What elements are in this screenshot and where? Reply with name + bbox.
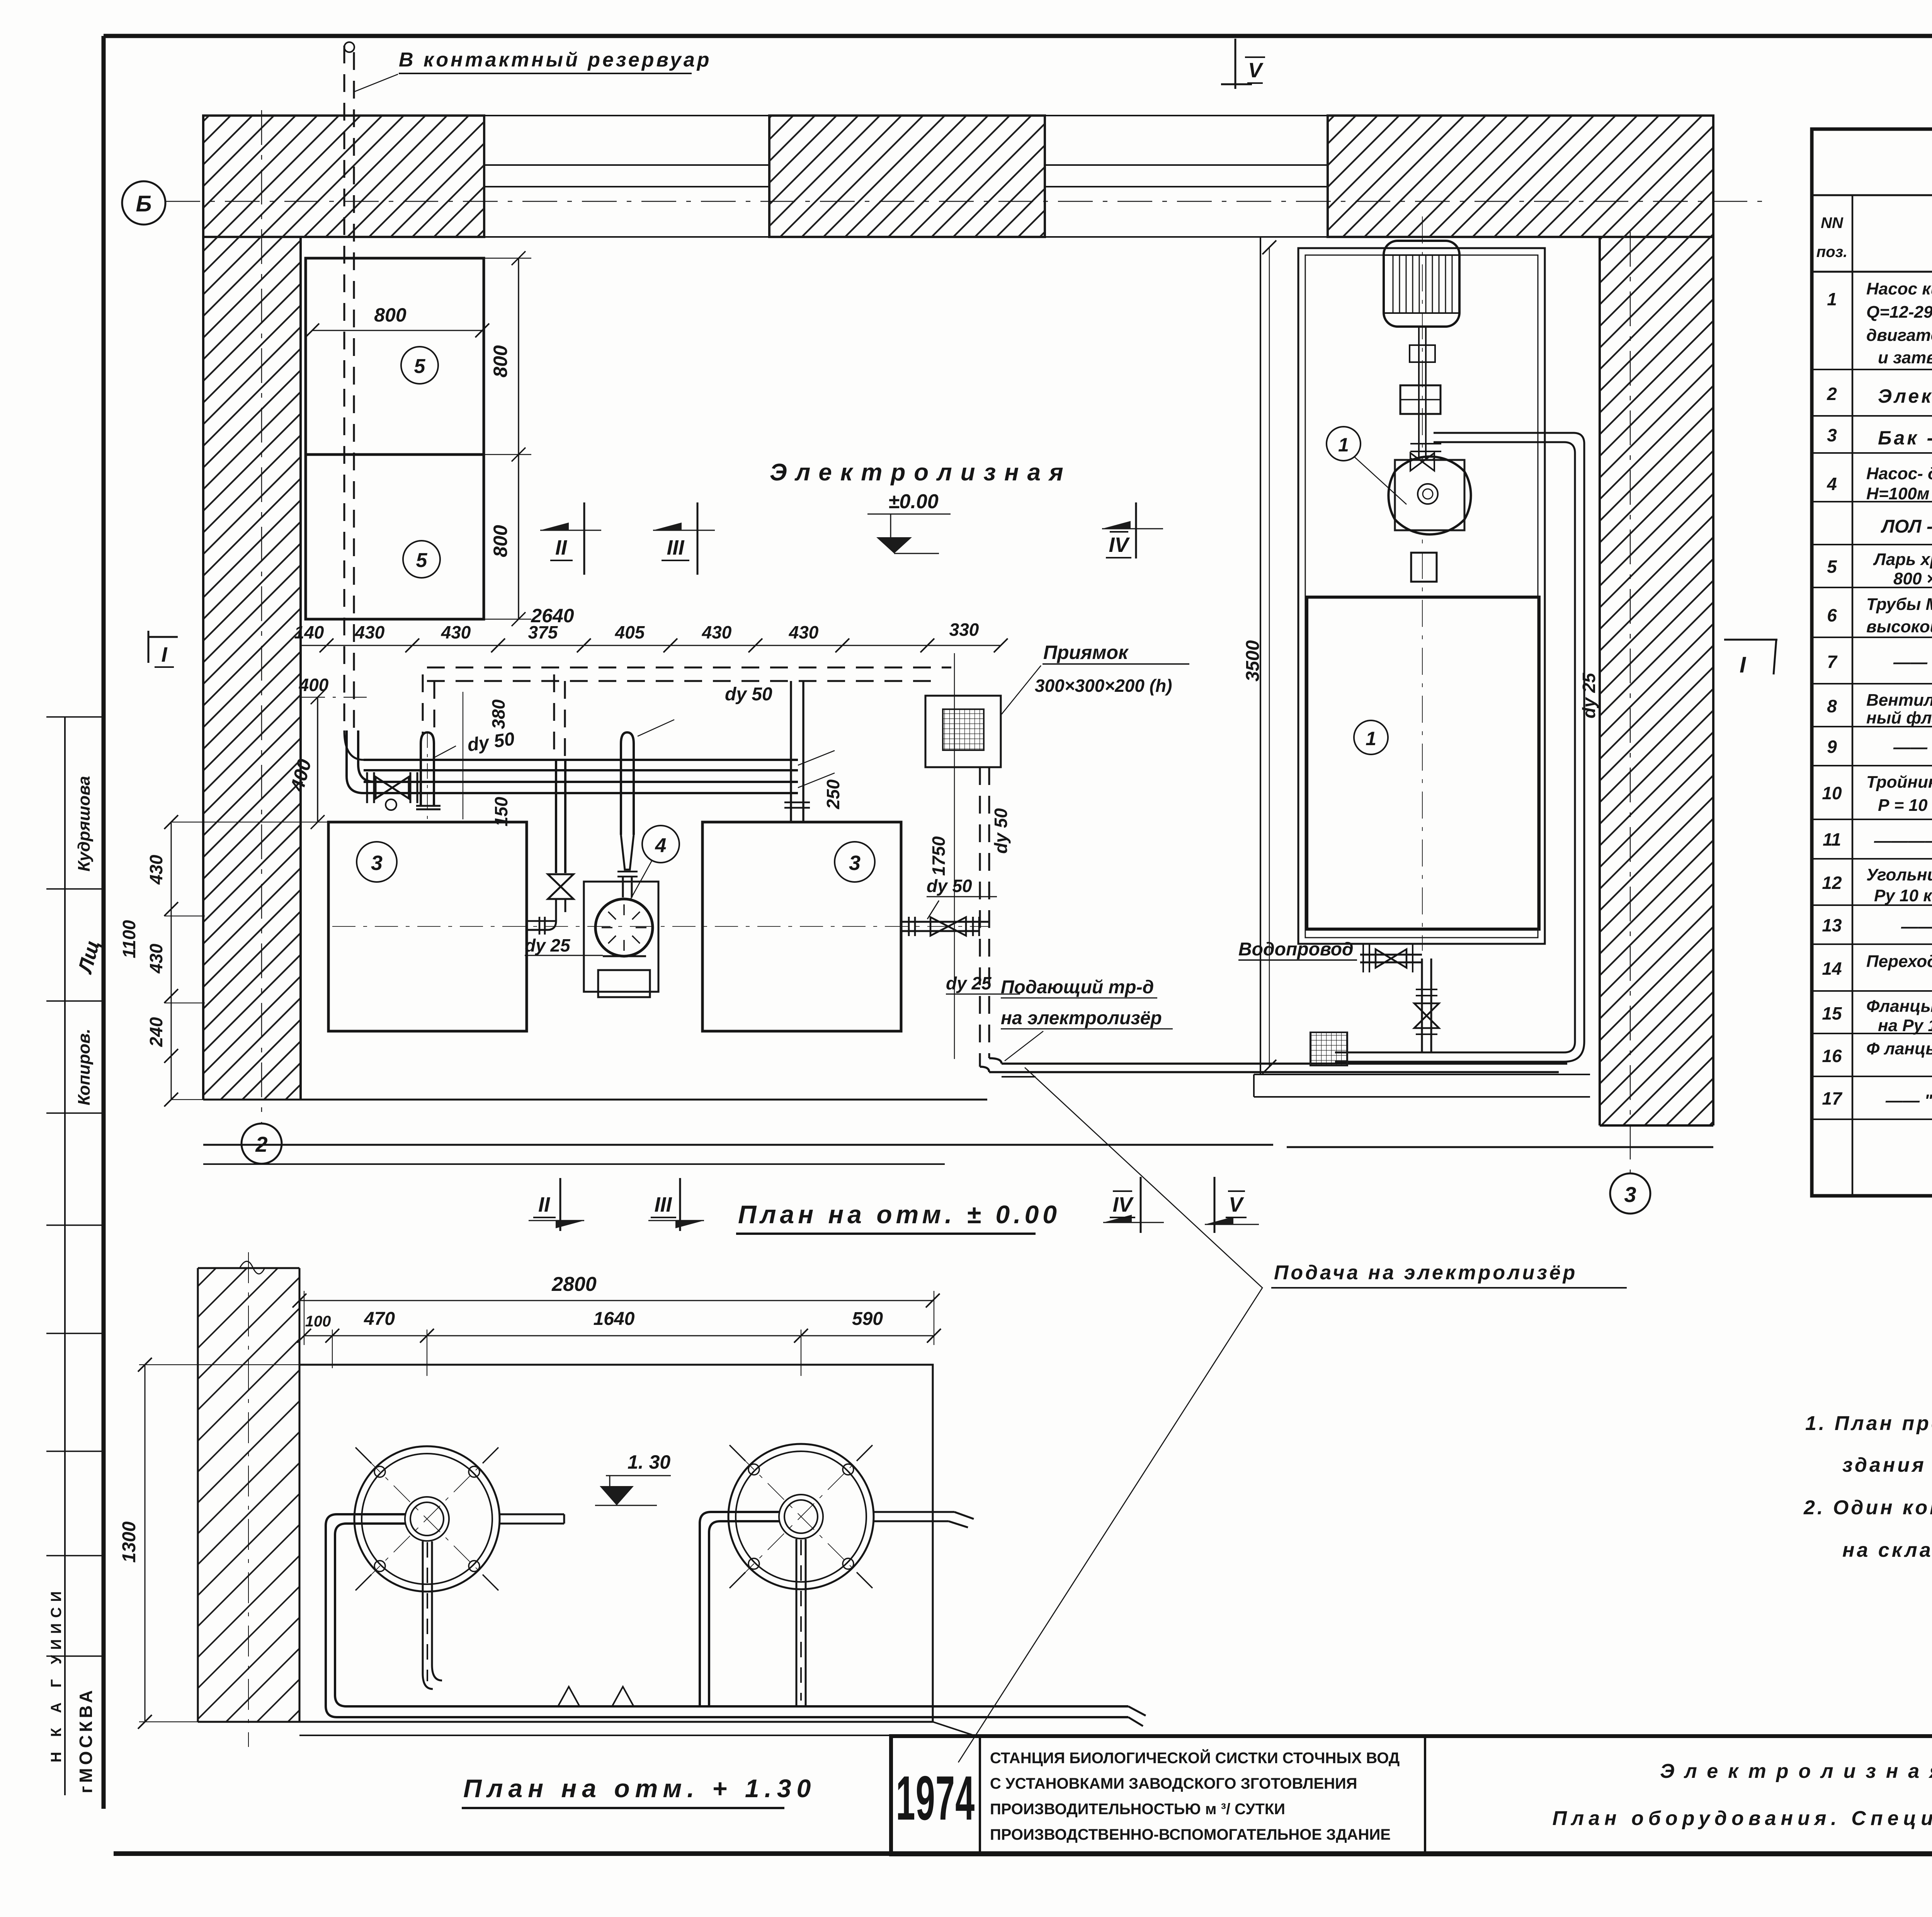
bottom wall inner line <box>203 1099 987 1101</box>
table row numbers <box>1822 289 1843 1108</box>
section mark I right <box>1724 640 1777 674</box>
pump volute circle <box>1388 456 1471 534</box>
water supply riser <box>1422 958 1431 1052</box>
svg-text:Переход Ру 6к: Переход Ру 6кгс/см² <box>1866 952 1932 971</box>
chain ticks <box>320 638 1008 652</box>
svg-text:1: 1 <box>1827 289 1837 309</box>
axis line 3 vertical <box>1630 232 1631 1173</box>
unit frame outer <box>1298 248 1545 944</box>
svg-text:3: 3 <box>1827 425 1837 445</box>
left impeller hub <box>405 1497 449 1541</box>
pump inlet bowtie <box>1410 453 1434 471</box>
svg-text:430: 430 <box>355 622 385 642</box>
tanks centerline horizontal <box>332 926 989 927</box>
left drop pipe dashes <box>427 1542 428 1681</box>
svg-text:dу 50: dу 50 <box>927 876 972 896</box>
svg-text:ЛОЛ - 21- 4 N = 0, 27 кВт: ЛОЛ - 21- 4 N = 0, 27 кВт <box>1881 516 1932 537</box>
outlet valve bowtie <box>930 917 966 936</box>
dim 1750 rotated <box>954 653 955 1059</box>
svg-text:II: II <box>538 1193 550 1216</box>
svg-text:СТАНЦИЯ БИОЛОГИЧЕСКОЙ СИСТКИ С: СТАНЦИЯ БИОЛОГИЧЕСКОЙ СИСТКИ СТОЧНЫХ ВОД <box>990 1749 1400 1767</box>
bottom run tail <box>1128 1706 1146 1726</box>
right drop pipe <box>796 1539 806 1706</box>
dashed header pipe horizontal <box>423 667 951 759</box>
svg-text:1300: 1300 <box>119 1521 139 1563</box>
svg-text:III: III <box>667 536 684 559</box>
svg-text:10: 10 <box>1822 783 1842 803</box>
svg-text:Ф ланцы 61: Ф ланцы 61 Ру 6кгс <box>1866 1039 1932 1058</box>
bottom plan interior <box>198 1365 933 1722</box>
margin column line <box>64 717 66 1795</box>
wall feed elbow vertical <box>347 730 358 776</box>
station name lines <box>990 1749 1400 1843</box>
margin cell ticks <box>46 717 104 1656</box>
svg-text:14: 14 <box>1822 958 1842 979</box>
pump eye circles <box>1418 484 1438 504</box>
pipe top hook <box>344 42 354 52</box>
svg-text:Трубы МРТУ-Б-05-917-67 dу: Трубы МРТУ-Б-05-917-67 dу 50 <box>1866 595 1932 614</box>
svg-text:V: V <box>1248 59 1264 82</box>
axis circle Б <box>122 181 165 225</box>
svg-text:5: 5 <box>414 355 426 378</box>
left chain line <box>171 822 172 1100</box>
svg-text:2. Один комплект насоса: 2. Один комплект насоса - дозатора храни… <box>1803 1496 1932 1519</box>
svg-text:1: 1 <box>1338 434 1349 456</box>
riser valve bowtie <box>1414 1003 1439 1028</box>
svg-text:ный фланцевый 15ВП 3п d: ный фланцевый 15ВП 3п dу 50 <box>1866 708 1932 727</box>
vodoprovod pipe <box>1360 955 1422 962</box>
section mark III <box>697 502 699 575</box>
tank label circle 1 <box>1354 720 1388 754</box>
pump volute inner ticks <box>602 904 646 951</box>
motor body <box>1384 241 1459 327</box>
pump inlet valve triangle <box>1411 458 1434 477</box>
pump volute circle <box>595 899 653 956</box>
left chain extension lines <box>164 822 328 1100</box>
svg-text:430: 430 <box>789 622 819 642</box>
svg-text:План на отм. + 1.30: План на отм. + 1.30 <box>463 1774 816 1803</box>
svg-text:6: 6 <box>1827 605 1837 625</box>
dim chain 100 470 1640 590 <box>304 1335 934 1336</box>
riser 2 to pump valve <box>556 759 565 873</box>
dim 3500 rotated <box>1269 247 1270 1067</box>
axis circle 3 <box>1610 1173 1650 1214</box>
svg-text:5: 5 <box>1827 557 1837 577</box>
pump cone <box>621 835 634 870</box>
svg-text:———— " ——— dу 25 × 2: ———— " ——— dу 25 × 25 <box>1874 831 1932 850</box>
year 1974 <box>896 1763 975 1833</box>
svg-text:I: I <box>161 643 167 666</box>
valve bowtie on pipe B <box>376 777 409 798</box>
top wall hatched segment left <box>203 116 484 237</box>
svg-text:Копиров.: Копиров. <box>75 1028 94 1105</box>
svg-text:405: 405 <box>615 622 645 642</box>
motor stripes <box>1393 255 1452 313</box>
page left border <box>102 36 106 1809</box>
riser 1 cap <box>421 732 434 744</box>
svg-text:высокой плотности Р=6кг/с: высокой плотности Р=6кг/см² <box>1866 617 1932 636</box>
svg-text:Электролизная: Электролизная <box>770 459 1072 486</box>
riser 1 filler pipe <box>421 744 434 806</box>
bin label circle 5 lower <box>403 541 440 578</box>
svg-text:15: 15 <box>1822 1003 1842 1023</box>
salt bin divider <box>306 453 484 456</box>
svg-text:Н К А Г УИИСИ: Н К А Г УИИСИ <box>48 1586 65 1762</box>
svg-text:2: 2 <box>255 1132 267 1156</box>
right stub right <box>874 1512 974 1527</box>
section mark I left <box>148 631 178 663</box>
svg-text:ПРОИЗВОДИТЕЛЬНОСТЬЮ м ³: ПРОИЗВОДИТЕЛЬНОСТЬЮ м ³/ СУТКИ <box>990 1801 1285 1818</box>
dim 400 vertical rotated <box>311 690 325 829</box>
svg-text:3: 3 <box>1624 1182 1636 1207</box>
top wall window 1 <box>484 116 769 237</box>
top wall window 2 <box>1045 116 1328 237</box>
pipe B lower <box>364 782 798 793</box>
svg-text:1974: 1974 <box>896 1763 975 1833</box>
axis circle 2 <box>241 1124 282 1164</box>
wall break squiggle <box>240 1262 265 1274</box>
bottom mark III <box>679 1178 681 1231</box>
right impeller hub <box>779 1495 823 1539</box>
right impeller stubs <box>730 1445 872 1588</box>
pump plinth <box>584 882 658 992</box>
svg-text:Б: Б <box>136 191 151 216</box>
recirc pipe bottom elbow <box>1335 1042 1584 1062</box>
svg-text:800: 800 <box>490 345 511 378</box>
svg-text:Тройники прямые: Тройники прямые ПВП <box>1866 773 1932 792</box>
motor cap line <box>1384 255 1459 313</box>
svg-text:Q=12-29м³/час Н=20-14м с элек: Q=12-29м³/час Н=20-14м с электро- <box>1866 303 1932 322</box>
right tank label circle 3 <box>835 842 875 882</box>
svg-text:5: 5 <box>416 549 428 572</box>
dim extension verticals <box>304 1291 934 1376</box>
left wall hatched <box>203 237 301 1100</box>
pump label leader <box>630 860 652 901</box>
svg-text:16: 16 <box>1822 1046 1842 1066</box>
svg-text:400: 400 <box>299 675 329 695</box>
left drop pipe <box>423 1541 442 1689</box>
section mark V top <box>1221 39 1252 89</box>
axis line Б horizontal <box>165 201 1762 202</box>
right tank outlet pipe dy50 <box>901 922 989 931</box>
bin label circle 5 upper <box>401 347 438 384</box>
svg-text:на электролизёр: на электролизёр <box>1001 1008 1162 1028</box>
left tank 3 <box>328 822 527 1031</box>
right impeller outer circles <box>728 1444 874 1589</box>
recirculation pipe dy25 <box>1434 433 1584 1042</box>
svg-text:двигателем А02-31-2; N=3 квт: двигателем А02-31-2; N=3 квт <box>1866 326 1932 345</box>
title block verticals <box>980 1736 1932 1854</box>
pump base <box>598 956 650 997</box>
left impeller bolts <box>374 1466 385 1477</box>
svg-text:поз.: поз. <box>1816 243 1847 260</box>
outlet flanges <box>909 917 979 936</box>
svg-text:IV: IV <box>1112 1193 1134 1216</box>
bottom mark II <box>560 1178 561 1231</box>
section mark IV <box>1135 502 1137 558</box>
bottom mark V <box>1214 1177 1216 1233</box>
svg-text:250: 250 <box>823 779 843 809</box>
svg-text:470: 470 <box>364 1309 395 1329</box>
right wall hatched <box>1600 237 1713 1125</box>
right impeller bolts <box>748 1464 759 1475</box>
section mark II <box>583 502 585 575</box>
page top border <box>104 34 1932 38</box>
bin dim 800 horizontal <box>312 330 482 331</box>
svg-text:800: 800 <box>374 304 406 326</box>
svg-text:Вентиль запорный прямоточ-: Вентиль запорный прямоточ- <box>1866 691 1932 710</box>
svg-text:—— " —— " —— dу 25: —— " —— " —— dу 25 <box>1893 653 1932 672</box>
svg-text:dу 50: dу 50 <box>991 808 1011 854</box>
pump body square <box>1395 460 1464 530</box>
bottom wall right room floor band <box>1254 1074 1590 1097</box>
riser 3 at right tank <box>791 681 803 822</box>
dim 2800 <box>299 1300 933 1301</box>
svg-text:на Ру 10 кгс / см ²: на Ру 10 кгс / см ² <box>1878 1016 1932 1035</box>
svg-text:330: 330 <box>949 620 979 640</box>
svg-text:9: 9 <box>1827 737 1837 757</box>
svg-text:Угольники прямые: Угольники прямые ПВП <box>1866 865 1932 884</box>
svg-text:1750: 1750 <box>929 836 949 876</box>
svg-text:Ру 10 кгс/ см ² dу: Ру 10 кгс/ см ² dу 50 <box>1874 886 1932 905</box>
vodoprovod valve <box>1376 949 1406 968</box>
coupling small <box>1410 345 1435 362</box>
svg-text:300×300×200 (h): 300×300×200 (h) <box>1035 676 1172 696</box>
right impeller tank <box>728 1444 874 1589</box>
riser 1 centerline <box>427 732 428 822</box>
svg-text:±0.00: ±0.00 <box>888 490 939 513</box>
svg-text:NN: NN <box>1821 215 1844 232</box>
svg-text:240: 240 <box>146 1017 166 1047</box>
bin dim extension ticks <box>484 258 531 619</box>
svg-text:dу 25: dу 25 <box>525 935 571 955</box>
riser 2 elbow to dy25 <box>527 899 565 930</box>
svg-text:Н=100м с электродвигателем: Н=100м с электродвигателем <box>1866 484 1932 503</box>
table header bottom line <box>1812 271 1932 273</box>
svg-text:590: 590 <box>852 1309 883 1329</box>
page bottom border <box>114 1851 1932 1856</box>
right feed elbow <box>700 1512 779 1706</box>
bottom mark IV <box>1140 1177 1142 1233</box>
level mark <box>867 514 951 549</box>
svg-text:Электролизная: Электролизная <box>1660 1760 1932 1783</box>
pump stem pipe <box>621 744 634 835</box>
wall axis dash <box>248 1252 249 1747</box>
pipe supports triangles <box>558 1687 634 1706</box>
svg-text:II: II <box>555 536 567 559</box>
svg-text:1100: 1100 <box>119 920 139 958</box>
svg-text:Водопровод: Водопровод <box>1238 939 1354 960</box>
svg-text:План оборудования. Специфик: План оборудования. Спецификация <box>1552 1807 1932 1830</box>
svg-text:3: 3 <box>849 851 861 875</box>
svg-text:Насос кислотный 2х-9 к- 5-5: Насос кислотный 2х-9 к- 5-51 <box>1866 279 1932 298</box>
svg-text:dу 50: dу 50 <box>725 684 772 705</box>
svg-text:430: 430 <box>146 943 166 974</box>
svg-text:здания см. черт. н̉ АР-3: здания см. черт. н̉ АР-3 <box>1842 1454 1932 1476</box>
svg-text:3: 3 <box>371 851 383 875</box>
svg-text:13: 13 <box>1822 915 1842 935</box>
svg-text:Электролизёр ЭН-1,2: Электролизёр ЭН-1,2 <box>1878 385 1932 407</box>
unit label circle 1 top <box>1327 427 1361 461</box>
svg-text:План на отм. ± 0.00: План на отм. ± 0.00 <box>738 1200 1061 1229</box>
table column lines <box>1852 195 1932 1196</box>
priyamok grid <box>943 709 984 750</box>
svg-text:I: I <box>1740 652 1747 678</box>
svg-text:—— " —— " —— dу 25: —— " —— " —— dу 25 <box>1885 1091 1932 1110</box>
svg-text:dу 25: dу 25 <box>1579 672 1599 718</box>
axis line 2 vertical <box>261 110 262 1123</box>
svg-text:4: 4 <box>1827 474 1837 494</box>
pump label circle 4 <box>642 826 679 863</box>
svg-text:III: III <box>654 1193 672 1216</box>
bottom plan lower ledge <box>299 1722 974 1735</box>
table title line <box>1812 194 1932 196</box>
salt bin box <box>306 258 484 619</box>
bin dim 800 vertical line <box>512 251 526 626</box>
svg-text:Подающий тр-д: Подающий тр-д <box>1001 977 1154 998</box>
svg-text:ПРОИЗВОДСТВЕННО-ВСПОМОГАТЕЛЬНО: ПРОИЗВОДСТВЕННО-ВСПОМОГАТЕЛЬНОЕ ЗДАНИЕ <box>990 1826 1391 1843</box>
unit label leader <box>1354 457 1406 504</box>
svg-text:Бак - накопитель: Бак - накопитель <box>1878 427 1932 449</box>
svg-text:—— " —— " —— dу 25: —— " —— " —— dу 25 <box>1893 738 1932 757</box>
svg-text:—— " —— d у 25: —— " —— d у 25 <box>1901 917 1932 936</box>
left tank label circle 3 <box>357 842 397 882</box>
svg-text:V: V <box>1229 1193 1244 1216</box>
right tank 3 <box>702 822 901 1031</box>
svg-text:IV: IV <box>1109 533 1130 557</box>
pump stem cap <box>621 732 634 744</box>
axis tick horizontal at 1804 <box>302 697 371 698</box>
svg-text:4: 4 <box>655 834 667 857</box>
pipe A/B right end arrows <box>798 751 835 788</box>
coupling large <box>1400 385 1440 414</box>
pump neck <box>623 877 632 897</box>
left impeller stubs <box>355 1447 498 1590</box>
svg-text:380: 380 <box>488 699 509 729</box>
chain line <box>302 645 1001 646</box>
vertical dashed drop pipe <box>980 767 989 1067</box>
pipe A left elbow from dashed riser <box>344 730 364 760</box>
riser 3 flange <box>784 802 810 808</box>
left impeller diag centerlines <box>364 1456 490 1582</box>
stem leader arrow <box>638 720 674 736</box>
shaft centerline <box>1422 216 1423 951</box>
svg-text:3500: 3500 <box>1243 640 1263 681</box>
coupling below pump <box>1411 553 1437 582</box>
svg-text:В контактный резервуар: В контактный резервуар <box>399 49 712 71</box>
svg-text:1: 1 <box>1366 728 1376 749</box>
pipe to contact reservoir <box>344 46 354 730</box>
left impeller tank <box>354 1446 500 1592</box>
svg-text:Приямок: Приямок <box>1043 642 1129 663</box>
svg-text:Фланцы плоские приварные: Фланцы плоские приварные <box>1866 997 1932 1016</box>
right impeller diag centerlines <box>738 1453 864 1580</box>
table name column <box>1866 279 1932 1110</box>
title block outer <box>891 1736 1932 1854</box>
shaft <box>1419 327 1426 462</box>
svg-text:Подача на электролизёр: Подача на электролизёр <box>1274 1262 1577 1284</box>
bottom plan wall hatched <box>198 1268 299 1722</box>
dim 1300 vertical <box>145 1365 146 1722</box>
feed elbow curves <box>347 764 375 793</box>
svg-text:100: 100 <box>305 1313 331 1330</box>
table outer box <box>1812 129 1932 1196</box>
left impeller outer circles <box>354 1446 500 1592</box>
svg-text:430: 430 <box>146 855 166 885</box>
svg-text:2: 2 <box>1827 384 1837 404</box>
niche wall line <box>1260 237 1261 1074</box>
svg-text:1640: 1640 <box>594 1309 635 1329</box>
valve bowtie vertical on riser 2 <box>548 874 573 899</box>
table row lines <box>1812 369 1932 1119</box>
riser flanges <box>1416 989 1437 1034</box>
svg-text:и затворным баком: и затворным баком <box>1878 348 1932 367</box>
svg-text:7: 7 <box>1827 652 1838 672</box>
svg-text:2800: 2800 <box>551 1273 597 1296</box>
svg-text:17: 17 <box>1822 1088 1843 1108</box>
bottom wall second line <box>203 1163 945 1165</box>
bottom supply run <box>980 1058 1567 1072</box>
svg-text:С УСТАНОВКАМИ ЗАВОДСКОГО ЗГО: С УСТАНОВКАМИ ЗАВОДСКОГО ЗГОТОВЛЕНИЯ <box>990 1775 1357 1792</box>
svg-text:8: 8 <box>1827 696 1837 716</box>
podacha leader lines <box>958 1067 1262 1762</box>
left stub right <box>500 1514 564 1524</box>
top wall hatched segment right <box>1328 116 1713 237</box>
dim line vertical at 1198 <box>463 692 463 819</box>
unit tank (bak) <box>1307 597 1539 929</box>
bottom wall outer line <box>203 1145 1713 1147</box>
leader to pipe <box>354 74 398 92</box>
valve drain circle <box>386 799 396 810</box>
left feed L-pipe <box>326 1514 1128 1717</box>
pump cone flange <box>617 872 638 877</box>
svg-text:12: 12 <box>1822 873 1842 893</box>
svg-text:Насос- дозатор НДр-100/10 Q=: Насос- дозатор НДр-100/10 Q=10м³/час. <box>1866 464 1932 483</box>
top wall hatched segment middle <box>769 116 1045 237</box>
svg-text:на складе.: на складе. <box>1842 1539 1932 1561</box>
svg-text:430: 430 <box>441 622 471 642</box>
svg-text:1. 30: 1. 30 <box>628 1451 670 1473</box>
svg-text:Кудряшова: Кудряшова <box>75 776 94 872</box>
pump flange pair <box>1410 444 1441 451</box>
svg-text:гМОСКВА: гМОСКВА <box>76 1687 96 1793</box>
pipe A upper <box>364 760 798 770</box>
svg-text:800 × 800 × 800 (h): 800 × 800 × 800 (h) <box>1893 569 1932 588</box>
svg-text:800: 800 <box>490 525 511 557</box>
valve flange ticks left <box>367 772 417 803</box>
svg-text:1. План производственно -: 1. План производственно - вспомогательно… <box>1805 1412 1932 1435</box>
unit frame inner <box>1305 255 1538 938</box>
svg-text:140: 140 <box>294 622 324 642</box>
svg-text:2640: 2640 <box>531 605 574 627</box>
riser 1 flange plate <box>416 806 440 809</box>
svg-text:11: 11 <box>1823 829 1841 850</box>
svg-text:Ларь хранения соли: Ларь хранения соли <box>1873 550 1932 569</box>
priyamok box <box>925 696 1001 767</box>
dy25 stub to left tank flanges <box>527 917 556 935</box>
svg-text:dу 25: dу 25 <box>946 973 992 993</box>
bottom run step plate <box>1002 1076 1036 1078</box>
floor drain grid <box>1310 1032 1347 1066</box>
svg-text:Р = 10 кгс / см dу 50 × 5: Р = 10 кгс / см dу 50 × 50 <box>1878 796 1932 815</box>
svg-text:430: 430 <box>702 622 732 642</box>
